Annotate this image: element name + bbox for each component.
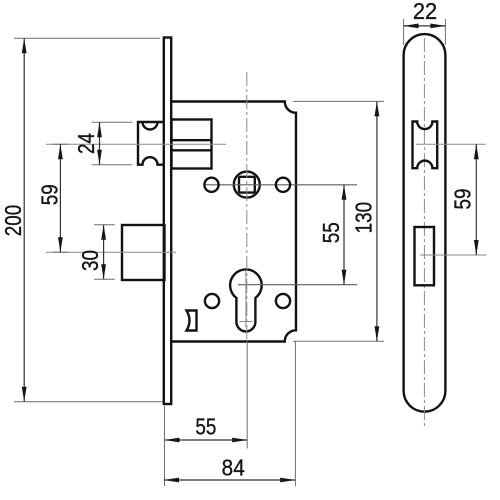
latch bolt tail: [172, 120, 212, 169]
svg-text:22: 22: [413, 0, 437, 24]
euro cylinder inner vertical line: [245, 270, 247, 327]
bottom extension line left (faceplate): [164, 406, 166, 486]
screw hole top-left: [204, 178, 218, 192]
svg-text:30: 30: [78, 250, 103, 271]
latch centerline: [46, 143, 226, 145]
svg-text:55: 55: [319, 222, 344, 243]
follower circle: [234, 172, 260, 198]
dimension 59 left line: [59, 144, 61, 252]
dimension 24 line: [99, 122, 101, 165]
svg-text:55: 55: [195, 415, 216, 440]
snib / stop: [187, 311, 197, 331]
dimension 22 line: [404, 25, 446, 27]
euro cylinder profile: [230, 269, 262, 331]
dimension 59 right line: [475, 144, 477, 255]
deadbolt centerline: [46, 251, 176, 253]
screw hole bottom-right: [276, 294, 290, 308]
follower horizontal centerline: [204, 184, 357, 186]
dimension 22 extension right: [444, 19, 446, 45]
dimension 55 right vertical line: [343, 185, 345, 285]
dimension 59 left tick bottom: [52, 251, 68, 253]
bottom extension line right (body rear): [294, 341, 296, 486]
strike plate vertical dash-dot centerline: [423, 38, 425, 428]
svg-text:200: 200: [1, 205, 26, 236]
svg-text:24: 24: [74, 133, 99, 154]
latch tail inner line 1: [172, 139, 212, 141]
dimension 200 extension top: [14, 37, 160, 39]
euro cylinder lower tick: [240, 321, 253, 323]
strike plate outline (front view, right): [404, 34, 446, 412]
dimension 130 line: [376, 101, 378, 341]
body vertical dash-dot centerline: [246, 72, 248, 341]
euro cylinder horizontal centerline: [238, 284, 357, 286]
deadbolt cutout: [415, 227, 435, 285]
latch bolt head: [138, 122, 165, 165]
svg-text:59: 59: [451, 189, 476, 210]
latch tail inner line 2: [172, 149, 212, 151]
screw hole bottom-left: [205, 294, 219, 308]
dimension 130 extension top: [293, 100, 384, 102]
deadbolt cutout centerline: [420, 254, 487, 256]
dimension 130 extension bottom: [293, 340, 384, 342]
dimension 55 bottom line: [165, 439, 248, 441]
deadbolt head: [122, 225, 165, 280]
dimension 200 line: [23, 38, 25, 402]
svg-text:130: 130: [352, 202, 377, 233]
follower square: [239, 177, 255, 193]
svg-text:59: 59: [38, 184, 63, 205]
lock body outline: [172, 102, 297, 342]
bottom extension line center (backset): [246, 341, 248, 448]
latch cutout centerline: [416, 143, 486, 145]
faceplate (side view, left): [164, 38, 171, 405]
latch cutout: [413, 122, 438, 169]
dimension 84 line: [164, 479, 295, 481]
dimension 30 tick bottom: [94, 278, 115, 280]
dimension 30 tick top: [94, 224, 115, 226]
dimension 59 left tick top: [52, 143, 68, 145]
dimension 200 extension bottom: [14, 401, 163, 403]
dimension 22 extension left: [403, 19, 405, 45]
screw hole top-right: [276, 178, 290, 192]
dimension 30 line: [103, 225, 105, 279]
dimension 24 extension bottom: [92, 164, 133, 166]
dimension 24 extension top: [92, 121, 133, 123]
svg-text:84: 84: [222, 454, 245, 480]
